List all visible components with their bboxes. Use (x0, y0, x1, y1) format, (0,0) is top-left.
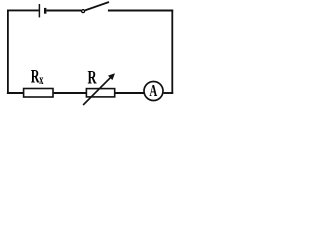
wire left vertical (7, 10, 9, 94)
battery cell: short thick plate (44, 8, 46, 14)
resistor Rx: box (24, 89, 53, 98)
wire right vertical (171, 10, 173, 94)
label Rx (31, 67, 44, 88)
rheostat R: arrowhead (108, 73, 115, 80)
svg-text:A: A (149, 82, 157, 101)
svg-text:x: x (39, 73, 43, 87)
wire switch to top-right corner (108, 10, 173, 12)
wire bottom-right (ammeter to corner) (164, 92, 174, 94)
svg-text:R: R (31, 67, 40, 87)
rheostat R: box (86, 89, 114, 97)
ammeter A: circle (144, 82, 163, 101)
wire bottom-left (7, 92, 24, 94)
battery cell: long plate (38, 4, 40, 17)
wire between Rx and rheostat (54, 92, 87, 94)
svg-text:R: R (87, 68, 96, 88)
wire battery to switch (46, 10, 81, 12)
wire top-left horizontal (7, 9, 39, 11)
wire rheostat to ammeter (116, 92, 145, 94)
rheostat R: arrow shaft (83, 77, 112, 106)
switch: blade (85, 2, 109, 10)
switch: fixed contact circle (82, 10, 85, 13)
